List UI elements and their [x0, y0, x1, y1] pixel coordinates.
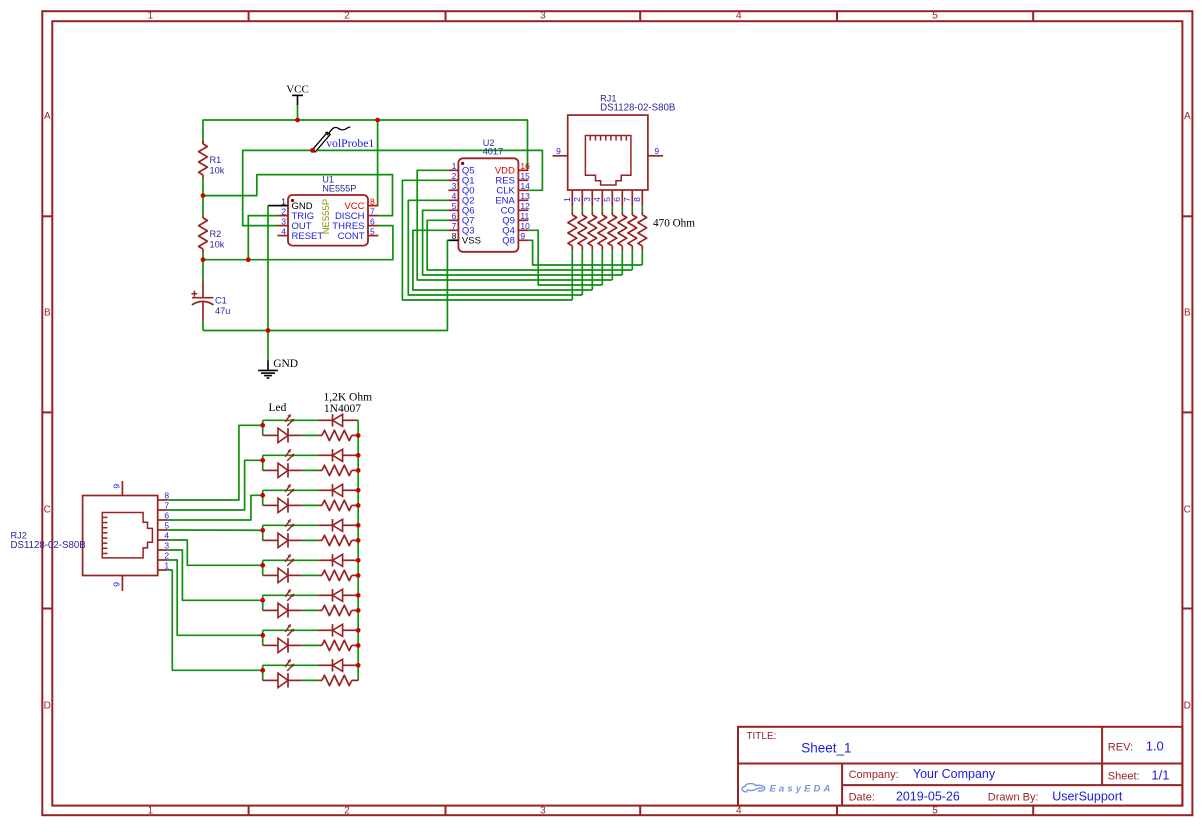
diode 1N4007 #4	[318, 519, 358, 531]
pin 9 bottom	[121, 576, 123, 591]
resistor R1 10k	[199, 140, 208, 178]
diode 1N4007 #3	[318, 484, 358, 496]
svg-text:8: 8	[370, 196, 375, 206]
wire Q4 to resistor 4	[528, 230, 602, 285]
svg-text:1,2K Ohm: 1,2K Ohm	[324, 391, 373, 403]
svg-text:2: 2	[164, 551, 169, 561]
pin 1	[158, 569, 168, 571]
pin 5	[158, 529, 168, 531]
wire U2 output to resistor network	[417, 170, 612, 280]
junction	[356, 503, 361, 508]
wire bus down to C1	[202, 260, 204, 281]
pin 13 ENA	[518, 199, 528, 201]
svg-text:B: B	[1184, 307, 1191, 318]
svg-text:4: 4	[736, 805, 742, 816]
wire resistor #1 drop	[571, 250, 573, 300]
pin 7 DISCH	[368, 215, 378, 217]
wire resistor #2 drop	[581, 250, 583, 295]
pin 9 left	[553, 155, 568, 157]
connector RJ1 DS1128-02-S80B	[553, 115, 664, 206]
wire resistor #7 drop	[631, 250, 633, 270]
svg-text:16: 16	[520, 161, 530, 171]
svg-text:14: 14	[520, 181, 530, 191]
svg-text:1: 1	[148, 805, 154, 816]
svg-text:VSS: VSS	[462, 236, 481, 247]
wire R1/R2 node to DISCH	[203, 175, 393, 216]
svg-text:9: 9	[556, 146, 561, 156]
svg-text:5: 5	[932, 11, 938, 22]
LED row 3 left wire	[262, 490, 264, 505]
resistor 470 Ohm #1	[568, 211, 577, 250]
wire	[302, 434, 318, 436]
pin 15 RES	[518, 179, 528, 181]
svg-text:REV:: REV:	[1108, 742, 1133, 754]
pin 4	[158, 539, 168, 541]
svg-text:8: 8	[632, 197, 642, 202]
junction	[356, 433, 361, 438]
svg-text:4: 4	[736, 11, 742, 22]
svg-text:volProbe1: volProbe1	[326, 137, 374, 150]
svg-text:10k: 10k	[210, 240, 225, 250]
EasyEDA logo	[742, 784, 833, 795]
pin 2 Q1	[448, 179, 458, 181]
svg-text:UserSupport: UserSupport	[1052, 790, 1123, 804]
wire RJ1 pin 4 to resistor	[601, 206, 603, 211]
resistor 1.2K #4	[318, 535, 358, 545]
diode 1N4007 #7	[318, 624, 358, 636]
junction	[356, 468, 361, 473]
diode 1N4007 #2	[318, 449, 358, 461]
svg-text:EasyEDA: EasyEDA	[770, 784, 834, 795]
svg-text:R2: R2	[210, 229, 222, 239]
wire R2 bottom to TRIG/THRES bus	[202, 253, 204, 260]
pin 12 CO	[518, 209, 528, 211]
svg-text:1N4007: 1N4007	[324, 403, 361, 415]
pin 4	[601, 190, 603, 206]
junction	[260, 668, 265, 673]
wire RJ2 pin to LED row	[168, 540, 263, 565]
wire U2 output to resistor network	[402, 180, 572, 300]
pin 4 RESET	[278, 235, 289, 237]
svg-text:3: 3	[540, 805, 546, 816]
wire TRIG/THRES bus	[203, 226, 393, 260]
svg-text:A: A	[44, 111, 51, 122]
resistor 1.2K #8	[318, 675, 358, 685]
svg-text:2: 2	[572, 197, 582, 202]
wire RJ2 pin to LED row	[168, 529, 263, 531]
svg-text:1: 1	[452, 161, 457, 171]
pin 9 right	[648, 155, 663, 157]
pin 3 OUT	[278, 225, 289, 227]
svg-text:2: 2	[452, 171, 457, 181]
svg-text:5: 5	[602, 197, 612, 202]
svg-text:15: 15	[520, 171, 530, 181]
svg-text:Your Company: Your Company	[913, 767, 996, 781]
wire OUT to CLK (volProbe net)	[243, 150, 543, 225]
svg-text:D: D	[44, 701, 51, 712]
resistor 1.2K #2	[318, 465, 358, 475]
svg-text:B: B	[44, 307, 51, 318]
ground GND symbol	[258, 360, 278, 378]
LED #3	[263, 484, 302, 513]
svg-text:D: D	[1184, 701, 1191, 712]
resistor 1.2K #7	[318, 640, 358, 650]
resistor 1.2K #5	[318, 570, 358, 580]
wire resistor #4 drop	[601, 250, 603, 285]
op-amp/timer U1 NE555P	[278, 195, 379, 246]
LED #7	[263, 624, 302, 653]
wire VCC flag to top bus	[297, 105, 299, 120]
svg-text:8: 8	[164, 491, 169, 501]
svg-text:Sheet_1: Sheet_1	[801, 741, 851, 756]
junction	[260, 563, 265, 568]
wire RJ1 pin 3 to resistor	[591, 206, 593, 211]
LED row 6 left wire	[262, 595, 264, 610]
svg-text:5: 5	[452, 201, 457, 211]
wire ground stub	[267, 331, 269, 361]
svg-text:4017: 4017	[483, 147, 503, 157]
VCC net flag	[286, 84, 309, 105]
resistor 470 Ohm #4	[598, 211, 607, 250]
svg-text:7: 7	[622, 197, 632, 202]
svg-text:9: 9	[111, 484, 121, 489]
wire	[302, 469, 318, 471]
wire	[263, 489, 319, 491]
connector RJ2 DS1128-02-S80B	[83, 481, 170, 591]
LED row 1 left wire	[262, 420, 264, 435]
svg-text:C1: C1	[215, 296, 227, 306]
wire RJ1 pin 5 to resistor	[611, 206, 613, 211]
junction	[356, 593, 361, 598]
probe volProbe1	[313, 127, 351, 152]
junction	[246, 257, 251, 262]
svg-text:GND: GND	[273, 358, 298, 370]
wire U1 GND pin1	[268, 205, 278, 207]
wire RJ1 pin 8 to resistor	[641, 206, 643, 211]
LED #4	[263, 519, 302, 548]
svg-text:Led: Led	[269, 402, 287, 414]
pin 2 TRIG	[278, 215, 289, 217]
diode 1N4007 #1	[318, 414, 358, 426]
junction	[356, 538, 361, 543]
wire Q8 to resistor 8	[528, 240, 642, 265]
LED #8	[263, 659, 302, 688]
svg-text:4: 4	[452, 191, 457, 201]
svg-text:12: 12	[520, 201, 530, 211]
wire	[302, 539, 318, 541]
pin 10 Q4	[518, 229, 528, 231]
resistor 470 Ohm #6	[618, 211, 627, 250]
junction	[201, 257, 206, 262]
svg-text:Sheet:: Sheet:	[1108, 771, 1140, 783]
pin 8	[158, 499, 168, 501]
svg-text:2: 2	[281, 206, 286, 216]
resistor 470 Ohm #5	[608, 211, 617, 250]
svg-text:8: 8	[452, 231, 457, 241]
svg-text:4: 4	[164, 531, 169, 541]
svg-text:A: A	[1184, 111, 1191, 122]
svg-text:9: 9	[520, 231, 525, 241]
LED row 7 left wire	[262, 630, 264, 645]
pin 3 Q0	[448, 189, 458, 191]
LED row 8 left wire	[262, 665, 264, 680]
svg-text:1.0: 1.0	[1146, 739, 1164, 754]
wire resistor #8 drop	[641, 250, 643, 265]
svg-text:6: 6	[164, 511, 169, 521]
pin 1 GND	[278, 205, 289, 207]
junction	[266, 328, 271, 333]
wire RJ1 pin 7 to resistor	[631, 206, 633, 211]
svg-text:4: 4	[281, 226, 286, 236]
pin 14 CLK	[518, 189, 528, 191]
IC U2 4017	[448, 158, 530, 252]
wire U2 output to resistor network	[413, 230, 592, 290]
junction	[356, 643, 361, 648]
svg-text:1: 1	[164, 561, 169, 571]
resistor 1.2K #6	[318, 605, 358, 615]
resistor 1.2K #1	[318, 430, 358, 440]
wire RJ1 pin 6 to resistor	[621, 206, 623, 211]
LED row 4 left wire	[262, 525, 264, 540]
svg-text:RESET: RESET	[292, 231, 324, 242]
resistor R2 10k	[199, 196, 208, 253]
junction	[356, 558, 361, 563]
wire R1 bottom to node	[202, 178, 204, 195]
wire	[263, 419, 319, 421]
junction	[310, 148, 315, 153]
wire	[302, 574, 318, 576]
junction	[260, 528, 265, 533]
svg-text:3: 3	[540, 11, 546, 22]
pin 9 Q8	[518, 239, 528, 241]
pin 8 VSS	[448, 239, 458, 241]
wire resistor #3 drop	[591, 250, 593, 290]
junction	[295, 118, 300, 123]
svg-text:DS1128-02-S80B: DS1128-02-S80B	[11, 540, 86, 551]
wire RJ2 pin to LED row	[168, 425, 263, 500]
LED #1	[263, 414, 302, 443]
pin 8 VCC	[368, 205, 378, 207]
wire RJ2 pin to LED row	[168, 495, 263, 520]
wire	[302, 644, 318, 646]
LED row 5 left wire	[262, 560, 264, 575]
LED #6	[263, 589, 302, 618]
pin 6 THRES	[368, 225, 378, 227]
wire LED rows right vertical	[357, 420, 359, 680]
svg-text:9: 9	[654, 146, 659, 156]
svg-text:2: 2	[344, 11, 350, 22]
svg-text:C: C	[1184, 504, 1191, 515]
pin 16 VDD	[518, 169, 528, 171]
pin 7 Q3	[448, 229, 458, 231]
resistor 470 Ohm #3	[588, 211, 597, 250]
svg-text:2019-05-26: 2019-05-26	[896, 790, 960, 804]
pin 11 Q9	[518, 219, 528, 221]
svg-text:TITLE:: TITLE:	[746, 731, 776, 742]
pin 7	[631, 190, 633, 206]
svg-text:1: 1	[562, 197, 572, 202]
wire	[263, 594, 319, 596]
svg-text:Drawn By:: Drawn By:	[988, 792, 1039, 804]
resistor 470 Ohm #7	[628, 211, 637, 250]
svg-text:2: 2	[344, 805, 350, 816]
LED #2	[263, 449, 302, 478]
wire	[263, 454, 319, 456]
pin 5 Q6	[448, 209, 458, 211]
svg-text:C: C	[44, 504, 51, 515]
wire RJ2 pin to LED row	[168, 570, 263, 670]
pin 4 Q2	[448, 199, 458, 201]
resistor 1.2K #3	[318, 500, 358, 510]
wire drop to U1 VCC pin 8	[377, 120, 379, 206]
junction	[260, 633, 265, 638]
wire RJ2 pin to LED row	[168, 460, 263, 510]
wire U2 output to resistor network	[427, 220, 632, 270]
svg-text:NE555P: NE555P	[321, 199, 332, 234]
svg-text:3: 3	[164, 541, 169, 551]
svg-text:3: 3	[281, 216, 286, 226]
pin 2	[581, 190, 583, 206]
junction	[356, 663, 361, 668]
svg-text:1: 1	[148, 11, 154, 22]
wire RJ2 pin to LED row	[168, 560, 263, 635]
junction	[201, 193, 206, 198]
junction	[356, 628, 361, 633]
svg-text:6: 6	[612, 197, 622, 202]
svg-text:5: 5	[932, 805, 938, 816]
svg-text:R1: R1	[210, 155, 222, 165]
junction	[356, 573, 361, 578]
LED #5	[263, 554, 302, 583]
wire RJ1 pin 1 to resistor	[571, 206, 573, 211]
svg-text:10k: 10k	[210, 165, 225, 175]
svg-text:VCC: VCC	[286, 84, 309, 96]
junction	[260, 598, 265, 603]
LED row 2 left wire	[262, 455, 264, 470]
pin 1 Q5	[448, 169, 458, 171]
wire	[263, 524, 319, 526]
svg-text:7: 7	[452, 221, 457, 231]
svg-text:Date:: Date:	[849, 792, 875, 804]
svg-text:1/1: 1/1	[1151, 768, 1169, 783]
pin 8	[641, 190, 643, 206]
svg-text:6: 6	[370, 216, 375, 226]
wire TRIG to bus	[248, 216, 277, 260]
pin 3	[591, 190, 593, 206]
resistor 470 Ohm #8	[638, 211, 647, 250]
svg-text:RJ2: RJ2	[11, 530, 27, 540]
resistor 470 Ohm #2	[578, 211, 587, 250]
svg-text:4: 4	[592, 197, 602, 202]
junction	[356, 608, 361, 613]
diode 1N4007 #8	[318, 659, 358, 671]
wire resistor #6 drop	[621, 250, 623, 275]
pin 3	[158, 549, 168, 551]
svg-text:Q8: Q8	[502, 236, 515, 247]
svg-text:6: 6	[452, 211, 457, 221]
wire resistor #5 drop	[611, 250, 613, 280]
junction	[260, 423, 265, 428]
pin 6	[621, 190, 623, 206]
pin 7	[158, 509, 168, 511]
wire	[302, 679, 318, 681]
svg-text:CONT: CONT	[338, 231, 365, 242]
wire top VCC bus	[203, 120, 528, 170]
wire	[302, 609, 318, 611]
title block	[738, 727, 1182, 806]
junction	[356, 488, 361, 493]
svg-text:NE555P: NE555P	[322, 183, 356, 193]
svg-text:5: 5	[164, 521, 169, 531]
wire RJ2 pin to LED row	[168, 550, 263, 600]
pin 6 Q7	[448, 219, 458, 221]
wire	[302, 504, 318, 506]
junction	[260, 493, 265, 498]
wire	[263, 559, 319, 561]
pin 5	[611, 190, 613, 206]
diode 1N4007 #5	[318, 554, 358, 566]
wire GND bus	[203, 240, 448, 330]
svg-text:7: 7	[164, 501, 169, 511]
wire	[263, 664, 319, 666]
svg-text:470 Ohm: 470 Ohm	[653, 218, 695, 230]
diode 1N4007 #6	[318, 589, 358, 601]
capacitor C1 47u polarized	[191, 281, 213, 320]
pin 6	[158, 519, 168, 521]
wire RJ1 pin 2 to resistor	[581, 206, 583, 211]
svg-text:DS1128-02-S80B: DS1128-02-S80B	[600, 102, 675, 113]
svg-text:3: 3	[582, 197, 592, 202]
wire U2 output to resistor network	[408, 200, 582, 295]
junction	[260, 458, 265, 463]
pin 5 CONT	[368, 235, 378, 237]
junction	[356, 523, 361, 528]
pin 2	[158, 559, 168, 561]
svg-text:47u: 47u	[215, 306, 230, 316]
svg-text:3: 3	[452, 181, 457, 191]
svg-text:Company:: Company:	[849, 769, 899, 781]
svg-text:1: 1	[281, 196, 286, 206]
wire U2 output to resistor network	[423, 210, 623, 275]
pin 1	[571, 190, 573, 206]
svg-text:11: 11	[520, 211, 529, 221]
junction	[356, 453, 361, 458]
wire C1 bottom to GND bus	[202, 320, 204, 331]
junction	[375, 118, 380, 123]
svg-text:5: 5	[370, 226, 375, 236]
svg-text:13: 13	[520, 191, 530, 201]
svg-text:9: 9	[111, 582, 121, 587]
wire	[263, 629, 319, 631]
pin 9 top	[121, 481, 123, 496]
svg-text:7: 7	[370, 206, 375, 216]
